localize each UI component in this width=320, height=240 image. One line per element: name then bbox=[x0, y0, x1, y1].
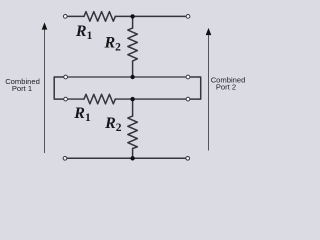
wire R2 to upper middle rail bbox=[132, 61, 134, 77]
resistor R1 (top) bbox=[84, 12, 115, 22]
right bracket joining port-2 terminals bbox=[190, 77, 200, 99]
terminal bottom-left bbox=[63, 156, 67, 160]
terminal top-left bbox=[63, 15, 67, 19]
wire lower middle rail left bbox=[68, 98, 84, 100]
port 1 arrow bbox=[44, 29, 46, 154]
wire bottom rail bbox=[67, 157, 185, 159]
terminal lower-middle-right bbox=[186, 97, 190, 101]
junction dot J2 (upper middle rail) bbox=[130, 75, 134, 79]
terminal upper-middle-right bbox=[186, 75, 190, 79]
wire R2 to bottom rail bbox=[132, 149, 134, 159]
terminal top-right bbox=[186, 15, 190, 19]
junction dot J3 (lower middle rail) bbox=[130, 97, 134, 101]
junction dot J1 (top) bbox=[130, 14, 134, 18]
wire lower middle rail right bbox=[115, 98, 185, 100]
svg-text:Port 1: Port 1 bbox=[12, 84, 32, 93]
svg-text:Port 2: Port 2 bbox=[216, 83, 236, 92]
wire top-left to R1 bbox=[68, 15, 84, 17]
wire R1 to top-right terminal bbox=[115, 15, 185, 17]
wire node J3 down to R2 bbox=[132, 99, 134, 116]
left bracket joining port-1 terminals bbox=[54, 77, 63, 99]
terminal bottom-right bbox=[186, 156, 190, 160]
junction dot J4 (bottom rail) bbox=[130, 156, 134, 160]
port 2 arrow bbox=[208, 34, 210, 151]
resistor R2 (top, vertical) bbox=[128, 28, 138, 61]
terminal upper-middle-left bbox=[64, 75, 68, 79]
wire upper middle rail bbox=[68, 76, 186, 78]
resistor R2 (bottom, vertical) bbox=[128, 116, 138, 149]
wire node J1 down to R2 bbox=[132, 16, 134, 28]
terminal lower-middle-left bbox=[64, 97, 68, 101]
resistor R1 (bottom) bbox=[84, 94, 115, 104]
